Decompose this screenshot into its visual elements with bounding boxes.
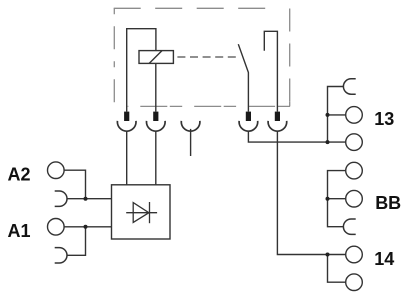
svg-text:13: 13 (374, 109, 394, 129)
svg-text:14: 14 (374, 249, 394, 269)
svg-text:A2: A2 (8, 165, 31, 185)
svg-text:BB: BB (375, 193, 401, 213)
svg-text:A1: A1 (8, 221, 31, 241)
